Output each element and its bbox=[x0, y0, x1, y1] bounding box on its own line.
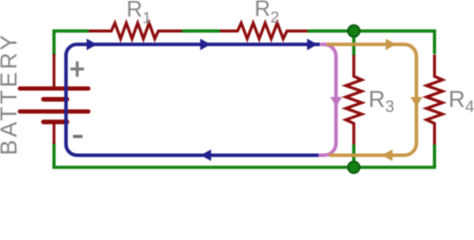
current arrow tan down bbox=[410, 97, 422, 107]
node junction dot top (R3 branch) bbox=[348, 25, 360, 37]
node junction dot bottom (R3 branch) bbox=[348, 161, 360, 173]
label battery + bbox=[70, 61, 84, 76]
current arrow blue left (bottom return) bbox=[201, 149, 211, 161]
current arrow purple down bbox=[330, 97, 342, 107]
battery BT1 bottom lead bbox=[53, 122, 56, 144]
svg-text:BATTERY: BATTERY bbox=[0, 32, 22, 155]
svg-text:R4: R4 bbox=[449, 86, 474, 116]
wire: green R3 branch top (node to R3) bbox=[352, 31, 355, 56]
wire: green top segment R2 to right corner, down to R4 bbox=[307, 31, 435, 54]
current arrow tan right (top) bbox=[386, 39, 396, 51]
battery BT1 plate 1 (long, +) bbox=[20, 86, 89, 90]
wire: green top segment R1 to R2 bbox=[181, 29, 220, 32]
resistor R4 (leads and zigzag) bbox=[427, 55, 443, 145]
label battery - bbox=[73, 135, 83, 138]
current arrow blue right 3 bbox=[307, 39, 317, 51]
current arrow blue right 1 bbox=[87, 39, 97, 51]
wire: green top-left segment battery to R1 bbox=[54, 31, 89, 56]
battery BT1 plate 2 (short) bbox=[43, 97, 67, 102]
wire: blue inner loop (battery current path) bbox=[66, 44, 322, 155]
svg-text:R2: R2 bbox=[255, 0, 280, 27]
battery BT1 plate 3 (long) bbox=[20, 109, 89, 113]
svg-text:R3: R3 bbox=[369, 86, 395, 116]
wire: green right side R4 to bottom corner and bottom rail to battery bbox=[54, 143, 435, 167]
current arrow blue right 2 bbox=[200, 39, 210, 51]
battery BT1 plate 4 (short, -) bbox=[43, 120, 67, 125]
current arrow tan left (bottom) bbox=[381, 149, 392, 161]
resistor R3 (leads and zigzag) bbox=[346, 55, 362, 145]
battery BT1 top lead bbox=[53, 54, 56, 89]
resistor R2 (leads and zigzag) bbox=[220, 23, 307, 39]
wire: tan branch segment (R4 return path) bbox=[327, 44, 417, 155]
wire: green R3 branch bottom (R3 to bottom node) bbox=[352, 144, 355, 167]
resistor R1 (leads and zigzag) bbox=[89, 23, 182, 39]
wire: purple branch segment (R3 return path) bbox=[319, 44, 337, 155]
